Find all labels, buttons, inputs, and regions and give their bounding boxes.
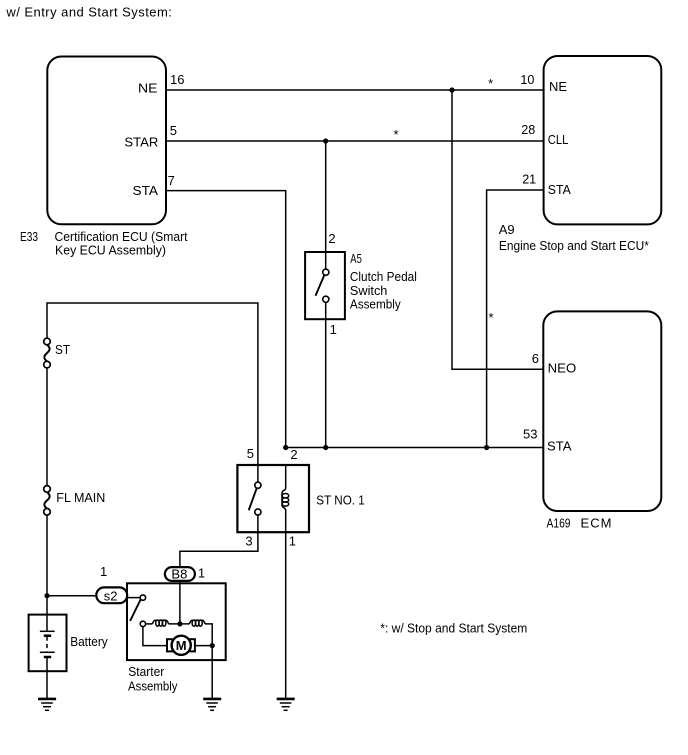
svg-text:B8: B8 [171,566,187,581]
svg-text:STAR: STAR [124,135,158,150]
svg-text:NEO: NEO [548,361,577,376]
svg-text:STA: STA [547,439,572,454]
svg-text:FL MAIN: FL MAIN [56,490,105,505]
svg-text:E33: E33 [20,229,38,244]
svg-text:ST: ST [55,342,70,357]
svg-text:ECM: ECM [581,516,612,531]
svg-text:Engine Stop and Start ECU*: Engine Stop and Start ECU* [499,238,649,253]
svg-text:A5: A5 [350,251,362,266]
svg-text:Battery: Battery [70,634,108,649]
svg-text:NE: NE [549,79,567,94]
svg-text:*: * [393,127,398,142]
svg-text:5: 5 [170,123,177,138]
svg-text:28: 28 [521,122,535,137]
svg-text:Clutch Pedal: Clutch Pedal [350,269,417,284]
svg-text:Starter: Starter [128,664,165,679]
svg-text:STA: STA [133,183,159,198]
svg-text:5: 5 [247,446,254,461]
svg-text:21: 21 [522,171,536,186]
svg-text:M: M [176,638,187,653]
svg-text:2: 2 [328,231,335,246]
svg-text:NE: NE [138,81,158,96]
svg-text:7: 7 [168,173,175,188]
svg-text:A169: A169 [547,516,571,531]
svg-text:Assembly: Assembly [128,678,178,693]
svg-text:1: 1 [198,566,205,581]
svg-text:1: 1 [330,322,337,337]
svg-text:STA: STA [548,182,571,197]
svg-text:CLL: CLL [548,132,569,147]
svg-text:16: 16 [170,72,184,87]
svg-text:ST NO. 1: ST NO. 1 [316,492,365,507]
svg-text:*: w/ Stop and Start System: *: w/ Stop and Start System [380,621,527,636]
svg-text:1: 1 [100,564,107,579]
svg-text:s2: s2 [104,589,118,604]
svg-text:10: 10 [520,72,534,87]
svg-text:1: 1 [289,534,296,549]
svg-text:6: 6 [532,351,539,366]
svg-text:*: * [488,310,493,325]
svg-text:53: 53 [523,427,537,442]
svg-text:Key ECU Assembly): Key ECU Assembly) [55,243,166,258]
svg-text:Assembly: Assembly [350,297,401,312]
svg-text:2: 2 [290,447,297,462]
svg-text:A9: A9 [499,222,515,237]
svg-text:*: * [488,76,493,91]
svg-text:w/ Entry and Start System:: w/ Entry and Start System: [5,4,172,19]
svg-text:3: 3 [245,534,252,549]
